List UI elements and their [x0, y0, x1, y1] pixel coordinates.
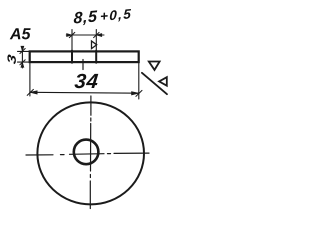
centerline vertical [89, 96, 92, 209]
centerline horizontal [26, 153, 149, 155]
hole edge line left [71, 51, 73, 63]
dimension 34 [27, 63, 142, 100]
label A5 [10, 28, 31, 39]
dimension 8,5+0,5 [66, 9, 131, 51]
hole circle [74, 140, 99, 165]
hole edge line right [95, 51, 97, 63]
side view centre axis tick [82, 60, 84, 70]
dimension 3 [7, 46, 29, 68]
surface finish symbol [142, 62, 167, 95]
front view outer circle [37, 102, 144, 204]
taper symbol [92, 41, 97, 49]
side view outline [30, 51, 139, 62]
